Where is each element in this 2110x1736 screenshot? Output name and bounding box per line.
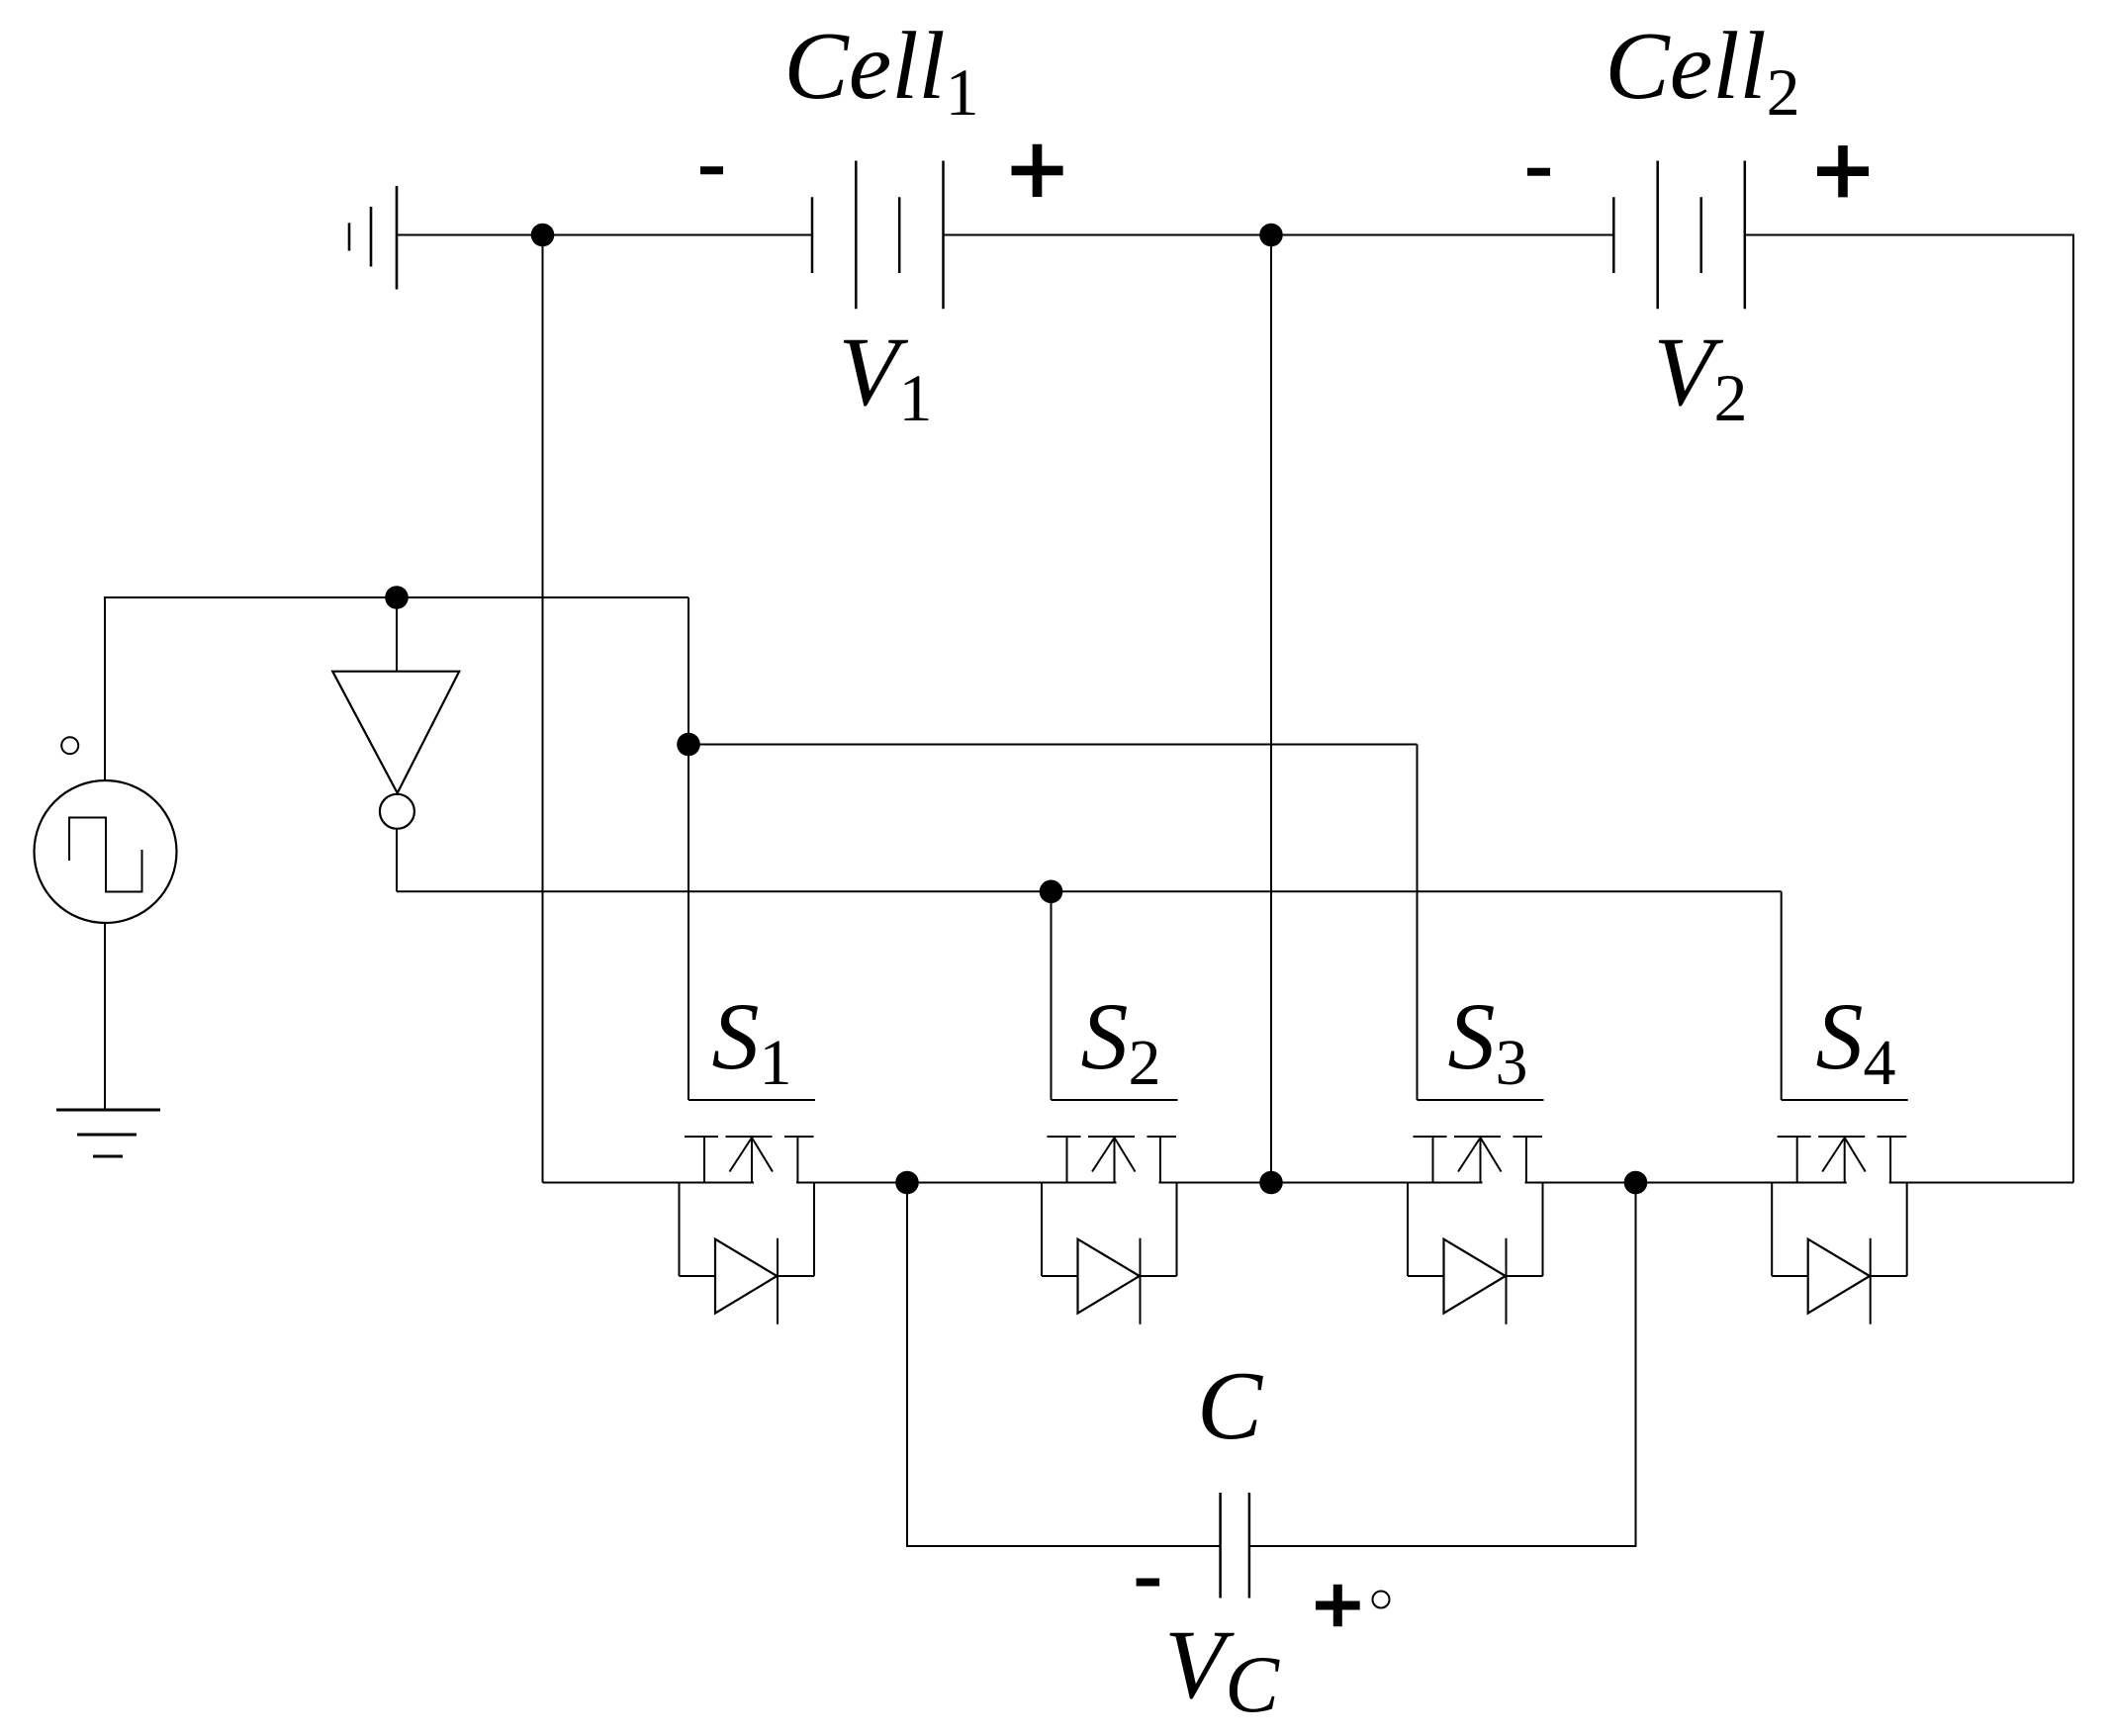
svg-text:V1: V1 xyxy=(838,317,932,435)
wire: N1 down to switch rail left end xyxy=(542,235,544,1183)
node N5 junction dot (S2 gate tap) xyxy=(1040,880,1063,904)
node N1 junction dot xyxy=(531,224,555,247)
transistor S4 (MOSFET switch) xyxy=(1778,1100,1908,1184)
label + (Cell1 positive) xyxy=(1012,144,1063,197)
ground G2 (below pulse source) xyxy=(56,1110,160,1156)
wire: top rail from ground to Cell1 negative plate xyxy=(396,234,812,236)
wire: phi-bar net horizontal (inverter output to S4 gate corner) xyxy=(397,890,1782,892)
wire: switch rail segment S1 to S2 xyxy=(796,1182,1117,1184)
diode D1 (body diode of S1) xyxy=(680,1183,815,1325)
wire: phi net horizontal N4 to S3 gate corner xyxy=(688,744,1418,746)
diode D2 (body diode of S2) xyxy=(1042,1183,1177,1325)
label + (Cell2 positive) xyxy=(1817,145,1869,197)
label - (Cell1 negative) xyxy=(700,166,723,174)
terminal circle (capacitor positive marker) xyxy=(1373,1592,1390,1608)
inverter U1 output bubble xyxy=(380,794,414,829)
node N4 junction dot (S1 gate tap) xyxy=(677,733,700,757)
transistor S2 (MOSFET switch) xyxy=(1048,1100,1178,1184)
wire: S4 gate feed down xyxy=(1781,891,1783,1100)
battery Cell1 xyxy=(812,161,944,310)
wire: Cell2 positive right and down to rail right end xyxy=(1745,235,2073,1183)
wire: pulse source top lead up and right to node N3 xyxy=(105,597,688,780)
node N7 junction dot (rail, mid-cell tap) xyxy=(1259,1171,1283,1195)
svg-text:VC: VC xyxy=(1164,1609,1280,1729)
wire: S2 gate feed down xyxy=(1051,891,1053,1100)
wire: inverter output down to phi-bar net xyxy=(396,829,398,892)
wire: N3 down to inverter input xyxy=(396,597,398,672)
svg-text:Cell2: Cell2 xyxy=(1605,13,1799,130)
wire: switch rail segment S2 to S3 xyxy=(1159,1182,1483,1184)
wire: S1 gate feed down xyxy=(688,745,689,1101)
svg-text:S3: S3 xyxy=(1448,983,1528,1099)
node N8 junction dot (rail, capacitor right) xyxy=(1624,1171,1648,1195)
svg-text:S1: S1 xyxy=(712,983,792,1099)
battery Cell2 xyxy=(1613,161,1745,310)
diode D3 (body diode of S3) xyxy=(1408,1183,1543,1325)
label - (Cell2 negative) xyxy=(1527,168,1550,176)
label + (capacitor positive) xyxy=(1316,1585,1360,1627)
label - (capacitor negative) xyxy=(1137,1579,1160,1587)
node N6 junction dot (rail, capacitor left) xyxy=(895,1171,919,1195)
node N2 junction dot xyxy=(1259,224,1283,247)
wire: capacitor right lead up xyxy=(1249,1183,1636,1547)
node N3 junction dot (inverter input tap) xyxy=(385,586,409,609)
wire: switch rail segment S4 to rail right end xyxy=(1889,1182,2073,1184)
wire: N2 down to rail junction between S2 and S3 xyxy=(1270,235,1272,1183)
diode D4 (body diode of S4) xyxy=(1772,1183,1907,1325)
wire: S3 gate feed down xyxy=(1417,745,1419,1101)
wire: Cell1 positive to node N2 xyxy=(944,234,1272,236)
transistor S3 (MOSFET switch) xyxy=(1414,1100,1544,1184)
svg-text:Cell1: Cell1 xyxy=(783,13,978,130)
pulse generator VP circle xyxy=(35,780,177,923)
wire: N2 to Cell2 negative plate xyxy=(1271,234,1613,236)
inverter U1 triangle xyxy=(332,672,459,793)
ground symbol (top-left, rotated facing left) xyxy=(349,186,397,290)
transistor S1 (MOSFET switch) xyxy=(685,1100,815,1184)
capacitor C plates xyxy=(1221,1493,1249,1599)
wire: pulse source bottom lead to ground xyxy=(104,923,106,1110)
svg-text:C: C xyxy=(1197,1352,1263,1460)
square-wave glyph inside pulse generator xyxy=(69,818,142,892)
terminal circle (pulse output marker) xyxy=(61,737,78,754)
wire: switch rail segment S3 to S4 xyxy=(1525,1182,1847,1184)
wire: capacitor left lead down xyxy=(907,1183,1221,1547)
svg-text:S2: S2 xyxy=(1081,983,1161,1099)
wire: phi net corner down from N3 level to N4 xyxy=(688,597,689,745)
svg-text:S4: S4 xyxy=(1816,983,1896,1099)
svg-text:V2: V2 xyxy=(1653,317,1747,435)
wire: switch rail segment rail left end to S1 xyxy=(543,1182,755,1184)
